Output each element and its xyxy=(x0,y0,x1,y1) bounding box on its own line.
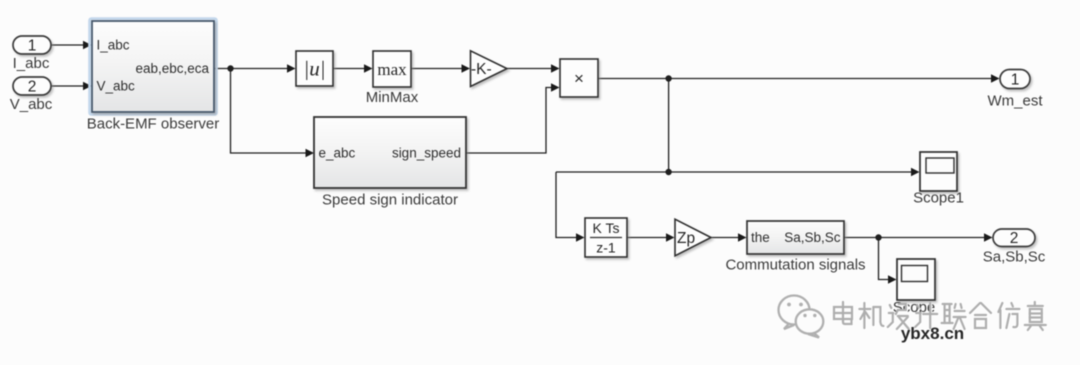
svg-text:Commutation signals: Commutation signals xyxy=(725,257,865,274)
svg-text:-K-: -K- xyxy=(471,61,492,78)
svg-text:z-1: z-1 xyxy=(596,240,616,256)
svg-text:Wm_est: Wm_est xyxy=(987,93,1043,110)
svg-text:1: 1 xyxy=(1011,72,1020,89)
svg-text:Sa,Sb,Sc: Sa,Sb,Sc xyxy=(983,249,1046,266)
svg-text:sign_speed: sign_speed xyxy=(392,146,461,161)
svg-text:2: 2 xyxy=(1010,230,1019,247)
svg-text:eab,ebc,eca: eab,ebc,eca xyxy=(135,61,209,76)
svg-text:K Ts: K Ts xyxy=(593,220,620,236)
svg-text:V_abc: V_abc xyxy=(10,96,53,113)
svg-text:V_abc: V_abc xyxy=(97,79,136,94)
svg-text:Speed sign indicator: Speed sign indicator xyxy=(322,192,458,209)
svg-text:×: × xyxy=(574,69,584,88)
svg-text:I_abc: I_abc xyxy=(97,38,130,53)
svg-text:MinMax: MinMax xyxy=(366,89,419,106)
svg-text:the: the xyxy=(751,230,770,245)
svg-text:Sa,Sb,Sc: Sa,Sb,Sc xyxy=(784,230,841,245)
svg-text:e_abc: e_abc xyxy=(319,146,356,161)
svg-text:|u|: |u| xyxy=(303,57,325,81)
svg-text:Zp: Zp xyxy=(677,230,695,247)
svg-text:1: 1 xyxy=(28,38,37,55)
svg-text:I_abc: I_abc xyxy=(13,55,50,72)
svg-text:Back-EMF observer: Back-EMF observer xyxy=(87,116,220,133)
svg-text:max: max xyxy=(377,60,407,79)
svg-text:Scope1: Scope1 xyxy=(913,190,964,207)
svg-text:ybx8.cn: ybx8.cn xyxy=(901,324,964,343)
svg-text:2: 2 xyxy=(28,79,37,96)
